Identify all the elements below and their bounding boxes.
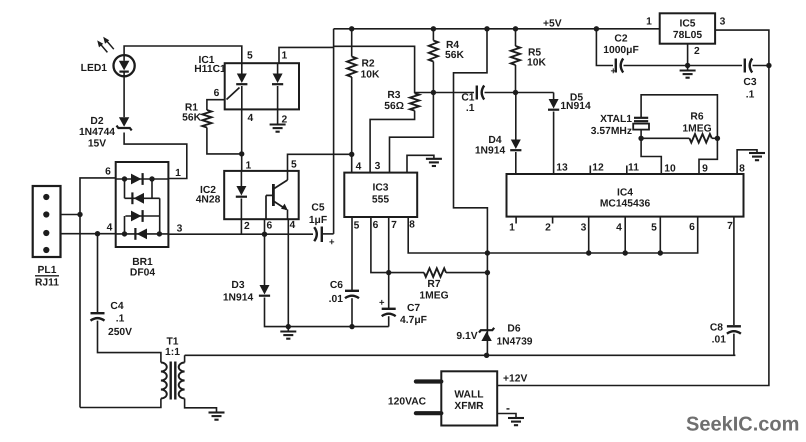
svg-text:1MEG: 1MEG	[682, 124, 711, 135]
ground at wall transformer	[508, 417, 524, 419]
wire: IC3 pin 6 elbow	[371, 217, 389, 273]
wire: D3 lower lead	[265, 298, 289, 327]
wire: IC3 pin 7 through R7 node into C7	[388, 217, 390, 309]
node: IC2 pin6/D3 junction	[262, 232, 267, 237]
svg-text:2: 2	[694, 46, 700, 57]
wire: +12V riser down and bottom rail	[497, 66, 769, 386]
svg-text:WALL: WALL	[454, 390, 483, 401]
node: PL1 pin2 junction	[77, 212, 82, 217]
svg-text:1N4739: 1N4739	[496, 337, 532, 348]
node A junction (IC1 pin4 / IC2 pin1)	[239, 151, 244, 156]
svg-text:.1: .1	[116, 314, 125, 325]
LED D1 indicator LED1	[114, 55, 135, 76]
bridge rectifier BR1 box	[116, 162, 169, 247]
svg-text:PL1: PL1	[38, 265, 57, 276]
svg-text:5: 5	[651, 223, 657, 234]
node: C6 bottom junction	[349, 324, 354, 329]
svg-text:8: 8	[739, 164, 745, 175]
svg-text:R2: R2	[362, 59, 375, 70]
svg-text:C1: C1	[461, 92, 474, 103]
resistor R5	[511, 46, 520, 65]
ground at IC4 pin 8	[749, 152, 765, 154]
svg-text:C3: C3	[743, 77, 756, 88]
capacitor C7	[382, 308, 396, 310]
wire: D4 to IC4 top	[515, 152, 517, 174]
svg-text:R6: R6	[690, 112, 703, 123]
svg-text:C2: C2	[614, 34, 627, 45]
wire: IC4 pin 3 to bus	[588, 217, 590, 253]
wire: D5 lead from C1 bus	[553, 93, 555, 100]
resistor R7	[424, 268, 446, 277]
wire: C1 node to IC3 pin (elbow)	[390, 93, 434, 173]
svg-text:+: +	[329, 237, 335, 248]
capacitor C6	[345, 290, 359, 292]
svg-text:10K: 10K	[527, 58, 546, 69]
svg-text:+: +	[611, 66, 617, 77]
wire: PL1 pin3 to BR1 pin4	[61, 233, 116, 235]
ground below D3 node	[280, 330, 296, 332]
wire: IC2 pin 6 to node	[264, 219, 266, 234]
svg-text:D3: D3	[231, 280, 244, 291]
svg-text:9: 9	[702, 164, 708, 175]
svg-text:D6: D6	[507, 324, 520, 335]
svg-text:3: 3	[720, 17, 726, 28]
wire: D5 to IC4 pin 13	[553, 112, 555, 175]
wire: BR1 pin 3 to C5	[168, 233, 313, 235]
svg-text:C4: C4	[110, 301, 123, 312]
wire: IC3 top ground stub	[407, 155, 434, 172]
zener diode D2	[119, 117, 129, 127]
node: R4 bottom junction	[431, 90, 436, 95]
svg-text:C5: C5	[311, 203, 324, 214]
transformer T1 primary coil	[161, 363, 167, 399]
wall plug prong lower	[416, 411, 441, 415]
BR1 internal row 3 diode	[125, 215, 159, 217]
svg-text:BR1: BR1	[132, 257, 153, 268]
wire: IC1 pin 4 down through node A to IC2 pin 1	[241, 109, 243, 170]
capacitor C4	[91, 312, 105, 314]
svg-text:1N914: 1N914	[475, 146, 506, 157]
wire: IC2 pin 5 to R2 bottom node	[288, 154, 352, 171]
wire: LED1 to D2	[123, 76, 125, 117]
svg-text:.1: .1	[746, 90, 755, 101]
wire: IC1pin1 net horizontal to R3	[334, 46, 415, 93]
BR1 internal row 2 diode	[125, 197, 160, 199]
wire: IC2 pin 4 down to ground node	[287, 219, 289, 326]
wire: pin2 ground stub	[687, 66, 689, 71]
svg-text:MC145436: MC145436	[600, 199, 651, 210]
svg-text:4: 4	[107, 223, 113, 234]
svg-text:10K: 10K	[361, 70, 380, 81]
wire: secondary rail y=355	[185, 354, 736, 356]
svg-text:4: 4	[616, 223, 622, 234]
wire: C2 branch down	[596, 29, 613, 66]
ground at IC5 pin 2	[680, 69, 696, 71]
svg-text:6: 6	[267, 221, 273, 232]
wire: XTAL node to IC4 pin 10	[641, 138, 661, 174]
wire: bottom bus y=326.6	[288, 326, 388, 328]
resistor R1	[202, 110, 211, 128]
wire: IC4 pin 4 to bus	[624, 217, 626, 253]
BR1 internal links	[124, 179, 126, 198]
wire: R5 bottom lead	[515, 65, 517, 93]
ground at IC3 top	[426, 158, 442, 160]
svg-text:4: 4	[290, 220, 296, 231]
svg-text:12: 12	[592, 163, 604, 174]
wire: R6 node to IC4 pin 9	[699, 138, 717, 174]
PL1 contacts	[43, 194, 49, 200]
svg-text:5: 5	[291, 160, 297, 171]
svg-text:C6: C6	[330, 280, 343, 291]
svg-text:RJ11: RJ11	[35, 278, 59, 289]
wire: IC4 pin 8 to ground	[737, 150, 757, 174]
diode D5	[549, 99, 559, 109]
wire: R2 bottom to IC3 pin 4	[351, 77, 353, 173]
resistor R4	[429, 41, 438, 62]
svg-text:1: 1	[646, 17, 652, 28]
svg-text:13: 13	[556, 163, 568, 174]
node: D6 bottom junction	[484, 353, 489, 358]
wire: R1 bottom to node A	[207, 128, 242, 154]
node: C4 top junction	[95, 231, 100, 236]
zener diode D6	[481, 332, 491, 342]
IC2 internal phototransistor	[272, 184, 275, 206]
svg-text:C7: C7	[407, 303, 420, 314]
wire: PL1 pin2 to BR1 pin6 riser	[61, 214, 81, 216]
svg-text:56K: 56K	[182, 113, 201, 124]
svg-text:1MEG: 1MEG	[419, 291, 448, 302]
capacitor C1	[476, 86, 478, 100]
svg-text:3: 3	[375, 161, 381, 172]
node: elbow net top on rail	[484, 26, 489, 31]
wire: IC2 pin 2 stub	[240, 219, 242, 234]
wire: C4 to T1 primary	[98, 321, 161, 363]
wire: D4 upper lead	[515, 93, 517, 140]
svg-text:6: 6	[373, 220, 379, 231]
svg-text:8: 8	[409, 220, 415, 231]
wire: C3 to +12V riser	[753, 65, 769, 67]
BR1 internal row 4 diode	[116, 233, 169, 235]
node: R2 top on +5V rail	[349, 26, 354, 31]
svg-text:XFMR: XFMR	[454, 401, 484, 412]
connector PL1 box	[33, 186, 61, 257]
svg-text:5: 5	[247, 51, 253, 62]
svg-text:11: 11	[628, 163, 639, 174]
crystal XTAL1	[634, 117, 648, 119]
transformer T1 core	[169, 362, 171, 400]
wire: LED1 top to IC1 pin 5	[124, 46, 242, 63]
wire: R3 bottom to IC3 pin 3	[370, 111, 415, 173]
svg-text:H11C1: H11C1	[194, 64, 226, 75]
svg-text:1: 1	[509, 223, 515, 234]
IC2 internal LED	[240, 171, 242, 186]
svg-text:.1: .1	[466, 103, 475, 114]
op-amp/optocoupler IC1 box	[225, 63, 299, 109]
wire: T1 secondary top to +wire	[184, 355, 186, 362]
node: IC5 pin2 ground node	[685, 63, 690, 68]
svg-text:D2: D2	[90, 116, 103, 127]
wire: D3 upper lead	[264, 234, 266, 285]
node: R5 top on rail	[513, 26, 518, 31]
svg-text:-: -	[506, 401, 510, 415]
IC1 internal photo-SCR	[241, 63, 243, 73]
transformer T1 secondary coil	[179, 363, 185, 399]
wire: IC1 pin 2 stub	[277, 109, 279, 124]
wire: C7 bottom lead	[388, 316, 390, 326]
svg-text:7: 7	[727, 221, 733, 232]
svg-text:3: 3	[581, 223, 587, 234]
svg-text:+: +	[379, 298, 385, 309]
optocoupler IC2 box	[224, 171, 299, 219]
svg-text:1μF: 1μF	[309, 215, 327, 226]
wire: IC4 pin 5 to bus	[659, 217, 661, 253]
node: R5 bottom junction	[513, 90, 518, 95]
wire: IC5 pin 3 to +12V riser	[715, 30, 769, 65]
resistor R6	[689, 134, 711, 143]
svg-text:4.7μF: 4.7μF	[400, 315, 427, 326]
svg-text:1:1: 1:1	[165, 347, 180, 358]
node: junction R7	[485, 270, 490, 275]
IC4 MC145436 box	[507, 174, 744, 217]
svg-text:IC3: IC3	[372, 183, 388, 194]
wire: IC1 pin 1 to +5V vertical	[279, 47, 334, 63]
svg-text:1N914: 1N914	[560, 101, 591, 112]
BR1 internal row 1 diode	[116, 178, 169, 180]
svg-text:1: 1	[246, 161, 252, 172]
svg-text:56K: 56K	[445, 50, 464, 61]
svg-text:555: 555	[372, 195, 389, 206]
wall plug prong upper	[416, 379, 441, 383]
svg-text:6: 6	[105, 167, 111, 178]
wire: elbow net (rail to pin8/R7/D6)	[454, 29, 488, 356]
wire: riser x=80 (BR1 pin6 to T1 bottom)	[80, 178, 116, 408]
diode D4	[511, 140, 521, 150]
svg-text:1N4744: 1N4744	[79, 127, 115, 138]
svg-text:C8: C8	[710, 323, 723, 334]
node: R4 top on rail	[431, 26, 436, 31]
svg-text:120VAC: 120VAC	[388, 396, 427, 407]
svg-text:R7: R7	[427, 279, 440, 290]
svg-text:LED1: LED1	[81, 63, 108, 74]
wire: C4 upper lead	[97, 234, 99, 314]
node: junction pin8 bus	[485, 250, 490, 255]
wire: IC1 pin 6 to R1	[207, 100, 225, 110]
wire: R4 upper lead	[432, 29, 434, 41]
capacitor C5	[314, 227, 317, 241]
svg-text:250V: 250V	[108, 327, 132, 338]
wire: T1 secondary bottom to ground	[185, 399, 217, 413]
wire: R4 bottom lead	[432, 62, 434, 93]
svg-text:5: 5	[354, 221, 360, 232]
svg-text:4: 4	[248, 113, 254, 124]
wire: R7 right lead	[446, 272, 487, 274]
wire: XFMR minus to ground	[497, 414, 516, 419]
svg-text:DF04: DF04	[130, 268, 155, 279]
node: XTAL bottom junction	[638, 136, 643, 141]
wire: D2 to BR1 pin 1	[124, 133, 187, 179]
svg-text:+5V: +5V	[543, 18, 562, 29]
node: +12V riser junction	[766, 63, 771, 68]
svg-text:4N28: 4N28	[196, 195, 221, 206]
svg-text:R3: R3	[387, 90, 400, 101]
wire: C2 to IC5 pin2 node	[624, 65, 688, 67]
svg-text:6: 6	[689, 222, 695, 233]
wire: C6 bottom lead	[351, 298, 353, 326]
wire: C5 to +5V vertical corner	[322, 233, 334, 235]
svg-text:.01: .01	[712, 335, 727, 346]
wire: R5 upper lead	[515, 29, 517, 46]
diode D3	[260, 285, 270, 295]
svg-text:1: 1	[175, 168, 181, 179]
wall transformer box	[441, 371, 497, 425]
wire: XTAL1 top loop	[641, 95, 717, 139]
capacitor C2	[615, 59, 617, 73]
wire: IC3 pin 8 to bus	[408, 217, 698, 253]
wire: R6 left lead	[641, 137, 689, 139]
node: C7 top junction	[386, 270, 391, 275]
node: R6 right junction	[715, 136, 720, 141]
svg-text:.01: .01	[329, 294, 344, 305]
svg-text:3: 3	[177, 224, 183, 235]
svg-text:+12V: +12V	[503, 374, 527, 385]
timer IC3 555 box	[344, 173, 417, 217]
wire: vertical from +5V rail down to C5 node	[333, 29, 335, 234]
regulator IC5 box	[660, 13, 715, 43]
svg-text:78L05: 78L05	[673, 30, 702, 41]
svg-text:2: 2	[545, 223, 551, 234]
node: R2 bottom junction	[349, 152, 354, 157]
svg-text:10: 10	[664, 164, 676, 175]
svg-text:15V: 15V	[88, 138, 106, 149]
svg-text:IC4: IC4	[617, 187, 633, 198]
wire: C1 bus y=92.5	[415, 92, 474, 94]
svg-text:4: 4	[356, 162, 362, 173]
svg-text:7: 7	[391, 220, 397, 231]
wire: pin2 node to C3	[688, 65, 742, 67]
svg-text:1: 1	[282, 51, 288, 62]
capacitor C3	[744, 59, 746, 73]
capacitor C8	[727, 325, 741, 327]
resistor R3	[410, 93, 419, 110]
svg-text:9.1V: 9.1V	[456, 331, 477, 342]
LED1 emission arrows	[97, 37, 114, 53]
wire: R7 left lead	[389, 272, 424, 274]
wire: T1 primary bottom return	[80, 399, 161, 408]
node: +5V at C2 branch	[594, 26, 599, 31]
wire: IC5 pin 2 stub	[687, 44, 689, 66]
wire: R2 upper lead	[351, 29, 353, 57]
svg-text:XTAL1: XTAL1	[600, 114, 632, 125]
svg-text:IC5: IC5	[679, 19, 695, 30]
wire: ground stub	[287, 327, 289, 332]
svg-text:D4: D4	[488, 135, 501, 146]
wire: IC3 pin 5 upper lead	[351, 217, 353, 290]
ground at T1 secondary	[209, 411, 225, 413]
resistor R2	[347, 57, 356, 78]
svg-text:3.57MHz: 3.57MHz	[591, 126, 632, 137]
svg-text:SeekIC.com: SeekIC.com	[686, 413, 799, 435]
wire: C8 bottom lead	[733, 334, 735, 356]
IC1 internal output diode	[277, 63, 279, 73]
svg-text:6: 6	[214, 88, 220, 99]
svg-text:2: 2	[244, 221, 250, 232]
node: ground node at IC2 pin4	[286, 324, 291, 329]
wire: R6 right lead	[712, 137, 718, 139]
svg-text:56Ω: 56Ω	[384, 101, 404, 112]
svg-text:T1: T1	[166, 337, 178, 348]
svg-text:1N914: 1N914	[223, 293, 254, 304]
wire: IC4 pin 7 to C8	[733, 217, 735, 325]
svg-text:1000μF: 1000μF	[603, 45, 639, 56]
ground at IC1 pin 2	[270, 123, 286, 125]
wire: +5V rail	[334, 28, 660, 30]
